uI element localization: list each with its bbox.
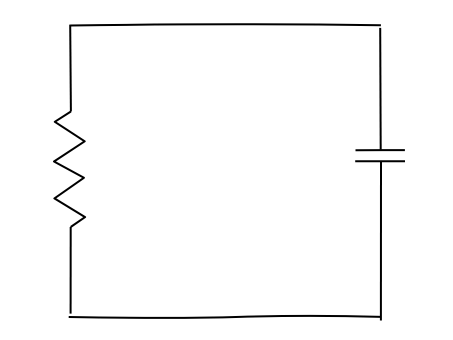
wire bottom (node D to node C) xyxy=(69,316,382,318)
wire top (node A to node B) xyxy=(70,24,381,25)
wire left lower (resistor R1 bottom to node D) xyxy=(70,227,72,314)
wire right upper (node B to capacitor C1 top plate) xyxy=(379,28,382,149)
wire right lower (capacitor C1 bottom plate to node C) xyxy=(380,162,382,321)
capacitor C1 bottom plate xyxy=(355,160,405,162)
wire left upper (node A to resistor R1 top) xyxy=(69,25,72,112)
resistor R1 xyxy=(54,112,85,228)
capacitor C1 top plate xyxy=(356,149,405,151)
